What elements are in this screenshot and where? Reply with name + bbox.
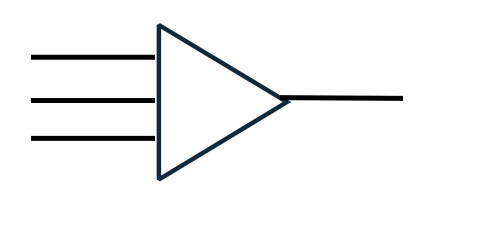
buffer/amplifier U1 (apex miter tip) <box>288 100 291 104</box>
wire (input 1) <box>31 55 155 60</box>
wire (input 2) <box>31 98 155 103</box>
buffer/amplifier U1 (triangle body) <box>159 25 287 180</box>
wire (input 3) <box>31 136 155 141</box>
wire (output) <box>280 95 403 101</box>
